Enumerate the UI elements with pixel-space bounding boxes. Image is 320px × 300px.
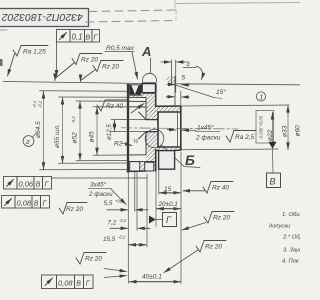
svg-text:ø22: ø22 xyxy=(267,129,274,141)
tolerance frame 0.08 В Г bottom xyxy=(42,275,94,289)
svg-text:Rz 40: Rz 40 xyxy=(212,185,229,192)
ext line right face down xyxy=(180,152,182,284)
hub bottom surface xyxy=(156,149,159,151)
groove white V top xyxy=(131,85,138,94)
groove slot bottom left xyxy=(130,162,140,171)
svg-text:1: 1 xyxy=(259,94,263,101)
svg-text:В: В xyxy=(270,177,276,187)
svg-text:7,2: 7,2 xyxy=(108,220,117,227)
svg-text:Г: Г xyxy=(86,280,91,287)
svg-text:Rz 20: Rz 20 xyxy=(213,215,230,222)
svg-text:¼: ¼ xyxy=(133,139,138,145)
dim d52 xyxy=(79,102,81,161)
roughness Rz 40 right xyxy=(203,182,233,194)
svg-text:1. Общ: 1. Общ xyxy=(282,212,300,218)
hatch flange right ring bottom xyxy=(146,151,156,172)
leader to Б xyxy=(162,145,201,168)
bore 22 bottom line xyxy=(158,146,181,148)
svg-text:Rz 20: Rz 20 xyxy=(205,244,222,251)
leader diagonal to 40 ext line xyxy=(164,250,198,273)
svg-text:R0,5 max: R0,5 max xyxy=(106,45,135,52)
dia 22 dim line with datum triangle xyxy=(272,113,274,120)
left face xyxy=(127,85,129,172)
svg-text:40±0,1: 40±0,1 xyxy=(142,274,162,281)
hub bottom surface segments xyxy=(156,149,159,151)
balloon 1 xyxy=(256,92,265,101)
groove rib bottom xyxy=(140,162,145,171)
svg-text:15,5: 15,5 xyxy=(103,236,116,243)
groove slot bottom right xyxy=(145,162,154,171)
flange right face top xyxy=(155,93,157,106)
leader from A to detail circle xyxy=(150,58,152,73)
dia 22 framed dimension xyxy=(256,111,274,144)
dim d12.5 arrows xyxy=(114,120,116,131)
hatch web and hub bottom wall xyxy=(146,132,158,151)
svg-text:0,1: 0,1 xyxy=(72,33,83,42)
snap-ring cavity outline xyxy=(159,151,175,170)
tolerance frame 0.06 В Г xyxy=(4,177,52,190)
detail circle Б xyxy=(145,129,164,148)
svg-text:2 фаски: 2 фаски xyxy=(195,135,221,142)
roughness Rz 20 second xyxy=(81,61,124,82)
frame leader to cap surface line xyxy=(56,42,58,77)
chamfer leader xyxy=(111,189,126,205)
svg-text:Rz 40: Rz 40 xyxy=(106,103,123,110)
bore chamfer edge xyxy=(177,112,179,147)
dashed vertical connector xyxy=(175,10,177,21)
ext line groove edge 5.5 xyxy=(134,172,136,212)
svg-text:0,08: 0,08 xyxy=(58,278,73,287)
svg-text:ø45: ø45 xyxy=(89,131,96,143)
ext line d64.5 bottom xyxy=(40,169,129,171)
groove root line top xyxy=(129,94,142,96)
roughness Rz 20 left mid xyxy=(59,203,87,215)
ext line groove edge 7.2 xyxy=(136,172,138,231)
svg-text:Ra 1,25: Ra 1,25 xyxy=(23,49,46,56)
title text rotated 180 xyxy=(2,11,83,23)
svg-text:Г: Г xyxy=(43,200,48,207)
left edge dash xyxy=(0,29,7,31)
dia 60 label (cut at edge) xyxy=(295,125,302,137)
svg-text:-0,2: -0,2 xyxy=(38,100,43,108)
ext line d64.5 top xyxy=(40,90,129,92)
roughness Rz 20 lower xyxy=(76,253,106,265)
svg-text:3. Зауc: 3. Зауc xyxy=(283,248,300,254)
bore 22 top line xyxy=(158,111,181,113)
svg-text:г: г xyxy=(26,137,30,146)
chamfer leader arrow xyxy=(182,129,196,132)
svg-text:R2: R2 xyxy=(114,141,123,148)
taper tail xyxy=(214,98,222,99)
centerline xyxy=(121,128,238,129)
ext line d12.5 bottom xyxy=(111,131,146,133)
web left face bottom xyxy=(145,132,147,156)
svg-text:1х45°: 1х45° xyxy=(197,124,214,132)
roughness Rz 20 lower right xyxy=(196,241,226,253)
top face xyxy=(127,84,146,86)
svg-text:Г: Г xyxy=(94,34,99,41)
svg-text:В: В xyxy=(86,34,91,41)
svg-text:ø12,5: ø12,5 xyxy=(106,124,113,140)
ext line d45 top xyxy=(93,106,128,108)
svg-text:-0,2: -0,2 xyxy=(118,235,126,240)
svg-text:-0,035: -0,035 xyxy=(259,127,264,140)
ext line bore bottom down xyxy=(158,170,160,195)
bore bottom face xyxy=(157,112,159,147)
svg-text:2.* Обр: 2.* Обр xyxy=(282,235,300,241)
svg-text:ø64,5: ø64,5 xyxy=(35,121,42,138)
taper 15 deg line xyxy=(175,85,214,98)
ext line d45 bottom xyxy=(93,154,128,156)
bore arrow inside xyxy=(167,129,176,132)
scan smudge xyxy=(0,59,3,66)
svg-text:Б: Б xyxy=(185,152,195,168)
groove root line bottom xyxy=(129,160,155,162)
svg-text:+0,2: +0,2 xyxy=(115,199,124,204)
svg-text:Rz 20: Rz 20 xyxy=(66,206,83,213)
leader arrows to left face ext xyxy=(104,269,127,272)
datum stem xyxy=(272,150,275,174)
hub top surface xyxy=(156,105,181,107)
hatch web and hub top wall xyxy=(146,106,181,112)
datum box В xyxy=(267,173,281,188)
svg-text:ø55 шл.: ø55 шл. xyxy=(54,124,61,148)
datum triangle B xyxy=(269,142,277,149)
collar step vertical xyxy=(174,77,176,107)
svg-text:-0,2: -0,2 xyxy=(119,218,127,223)
part outline xyxy=(127,85,181,172)
circled note letter xyxy=(23,136,34,147)
svg-text:3х45°: 3х45° xyxy=(90,181,107,189)
top dashed line lower xyxy=(86,21,176,23)
leader frame1 to part xyxy=(52,177,147,179)
ext line part left face down xyxy=(127,172,129,284)
hatch web mid xyxy=(146,106,158,119)
svg-text:ø60: ø60 xyxy=(295,125,301,137)
top dashed line upper xyxy=(89,10,176,12)
leader to dim xyxy=(182,223,206,231)
cap ring top xyxy=(142,83,156,93)
dim d55 xyxy=(62,98,64,163)
ext line d52 top xyxy=(76,100,128,102)
roughness Ra 2.5 xyxy=(226,131,256,143)
roughness Rz 20 mid right xyxy=(204,212,234,224)
hub bottom extension (datum) line xyxy=(181,148,278,151)
hatch collar notch xyxy=(167,77,176,85)
svg-text:Rz 20: Rz 20 xyxy=(85,256,102,263)
flange right face bottom xyxy=(155,150,157,171)
svg-text:15°: 15° xyxy=(216,88,226,96)
svg-text:4320П2-1803202: 4320П2-1803202 xyxy=(2,11,83,23)
tolerance frame 0.08 В Г mid xyxy=(2,196,50,209)
svg-text:ø52: ø52 xyxy=(72,132,79,144)
leader Rz40 to right face xyxy=(183,190,205,192)
small hole 12.5 top line xyxy=(146,119,158,121)
svg-text:4. Пок: 4. Пок xyxy=(282,259,299,265)
top frame line xyxy=(175,3,300,4)
ext line d55 top xyxy=(59,96,129,98)
roughness Ra 1.25 xyxy=(8,46,49,77)
Rz40 box with leader into bore xyxy=(97,100,127,111)
svg-text:Ra 2,5: Ra 2,5 xyxy=(235,134,255,141)
svg-text:Rz 20: Rz 20 xyxy=(102,64,119,71)
svg-text:20±0,1: 20±0,1 xyxy=(158,201,178,208)
hatch flange top band xyxy=(129,85,147,97)
hole entry cone bottom xyxy=(139,132,147,139)
bottom face xyxy=(127,170,146,172)
svg-text:2 фаски: 2 фаски xyxy=(88,191,113,198)
detail circle A xyxy=(143,73,157,87)
svg-text:-0,1: -0,1 xyxy=(32,101,37,108)
ext line d12.5 top xyxy=(111,119,146,121)
ext line cap edge 15.5 xyxy=(146,174,148,247)
svg-text:В: В xyxy=(34,200,39,207)
mating part top line xyxy=(175,84,300,85)
hole entry cone top xyxy=(139,112,147,120)
tolerance frame runout 0.1 В Г xyxy=(57,30,100,43)
svg-text:В: В xyxy=(76,280,81,287)
svg-text:15: 15 xyxy=(164,186,172,193)
hatch flange right ring top xyxy=(146,93,156,106)
hub right face xyxy=(180,106,182,150)
svg-text:0,06: 0,06 xyxy=(19,179,34,188)
svg-text:5,5: 5,5 xyxy=(104,200,113,207)
spline bore lines top xyxy=(129,97,147,155)
cap surface extension line xyxy=(3,82,144,84)
svg-text:0,08: 0,08 xyxy=(17,198,32,207)
svg-text:Г: Г xyxy=(166,215,172,225)
dia 33 dimension line xyxy=(287,106,289,150)
svg-text:-0,2: -0,2 xyxy=(71,116,76,124)
dim d45 xyxy=(96,107,98,154)
datum flag Г xyxy=(149,216,156,224)
dia 33 label xyxy=(282,125,289,137)
hub top extension line xyxy=(182,105,289,106)
svg-text:В: В xyxy=(36,181,41,188)
svg-text:5: 5 xyxy=(182,75,186,82)
small hole 12.5 bottom line xyxy=(146,131,158,133)
dim d64.5 xyxy=(43,92,45,170)
curved leader arrow xyxy=(196,66,202,80)
ext line flange right face down xyxy=(155,172,157,227)
roughness Rz 20 first xyxy=(55,54,102,81)
svg-text:А: А xyxy=(141,44,151,59)
Rz40 leader arrow xyxy=(131,104,144,114)
top frame tick xyxy=(174,0,176,8)
svg-text:допуски: допуски xyxy=(269,224,291,230)
groove block top xyxy=(129,85,141,94)
web left face top xyxy=(145,98,147,120)
svg-text:Rz 20: Rz 20 xyxy=(81,57,98,64)
svg-text:ø33: ø33 xyxy=(282,125,289,137)
svg-text:+0,05: +0,05 xyxy=(259,115,264,126)
svg-text:Г: Г xyxy=(45,181,50,188)
ext line d52 bottom xyxy=(76,160,128,162)
title block box xyxy=(0,9,89,27)
ext line d55 bottom xyxy=(59,162,129,164)
